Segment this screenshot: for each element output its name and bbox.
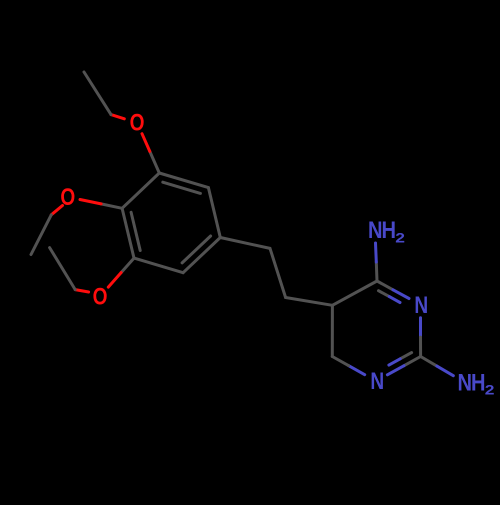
bond pyrimidine C6p-C5p (drawn single in reference) [331,305,334,356]
bond C2-O(left) half near C2 [101,204,122,208]
bond O(left)-CH2 red stub [51,206,62,215]
bond C2p-NH2(right amine) half near NH2r [437,366,453,376]
bond benzene C3-C4 [134,258,183,273]
bond bridge bond C5-CH2 [220,238,270,249]
svg-text:O: O [60,183,75,211]
bond C2-O(left) half near O_left [80,200,101,204]
bond pyrimidine N1-C6p half near N1 [349,366,365,375]
bond bridge bond CH2-C5prime [286,298,333,306]
svg-text:O: O [130,108,145,136]
bond C2p-NH2(right amine) half near C2p [421,357,437,367]
svg-text:2: 2 [485,383,495,398]
bond bridge bond CH2-CH2 [270,248,286,297]
bond C1-O(top) half near O_top [142,134,150,152]
bond benzene C4=C5 inner line [182,236,211,263]
bond pyrimidine C4p=N3 half near C4p [377,281,393,290]
bond O(bottom)-CH2 red stub [75,290,88,292]
bond pyrimidine C4p=N3 half near N3 [393,290,409,299]
bond benzene C6=C1 [159,173,208,188]
bond CH2-CH3 (bottom ethoxy tail) [50,248,76,290]
bond benzene C4=C5 [183,238,220,273]
bond benzene C6=C1 inner line [163,182,201,193]
bond pyrimidine C5p-C4p [332,281,377,305]
bond CH2-CH3 (left ethoxy tail) [31,215,51,255]
bond pyrimidine C4p=N3 inner line half near C4p [379,291,390,297]
bond pyrimidine C4p=N3 inner line half near N3 [389,297,400,303]
bond pyrimidine C2p=N1 inner line half near C2p [400,353,411,359]
svg-text:2: 2 [395,231,405,246]
svg-text:N: N [414,291,428,319]
bond C3-O(bottom) half near O_bot [108,273,121,288]
bond benzene C2=C3 [122,208,134,258]
bond benzene C5-C6 [208,188,220,238]
svg-text:NH: NH [458,369,486,396]
bond benzene C2=C3 inner line [131,212,140,250]
svg-text:NH: NH [368,216,396,243]
bond pyrimidine N1-C6p half near C6p [332,357,348,366]
bond pyrimidine C2p=N1 half near N1 [387,366,404,375]
bond C1-O(top) half near C1 [150,151,160,173]
bond CH2-CH3 (top ethoxy tail) [84,72,111,115]
bond C3-O(bottom) half near C3 [121,258,134,273]
bond pyrimidine C2p=N1 half near C2p [404,357,421,366]
bond pyrimidine C2p=N1 inner line half near N1 [389,359,400,365]
bond pyrimidine N3-C2p half near C2p [419,337,422,356]
bond benzene C1-C2 [122,173,159,208]
bond C4p-NH2(top amine) half near C4p [375,262,379,281]
bond C4p-NH2(top amine) half near NH2t [374,243,378,262]
svg-text:N: N [370,367,384,395]
svg-text:O: O [93,282,108,310]
bond pyrimidine N3-C2p half near N3 [419,318,422,337]
bond O(top)-CH2 red stub [111,115,124,119]
